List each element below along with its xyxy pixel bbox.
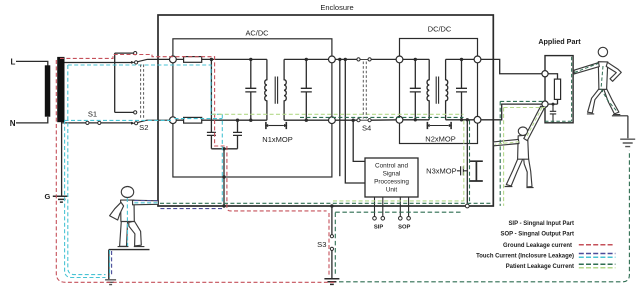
svg-text:N2xMOP: N2xMOP <box>425 134 455 143</box>
svg-text:DC/DC: DC/DC <box>428 25 452 34</box>
svg-text:SIP - Singnal Input Part: SIP - Singnal Input Part <box>508 221 574 227</box>
svg-text:S4: S4 <box>362 124 371 133</box>
svg-text:S1: S1 <box>88 110 97 119</box>
svg-text:N3xMOP: N3xMOP <box>426 167 456 176</box>
svg-text:Ground Leakage current: Ground Leakage current <box>503 243 572 249</box>
svg-text:AC/DC: AC/DC <box>246 29 270 38</box>
svg-text:G: G <box>45 192 51 201</box>
svg-text:N: N <box>10 119 16 128</box>
svg-text:S2: S2 <box>139 123 148 132</box>
svg-text:Applied Part: Applied Part <box>538 37 581 46</box>
svg-text:SIP: SIP <box>374 225 383 231</box>
svg-text:Control and: Control and <box>375 162 408 169</box>
svg-text:L: L <box>11 57 16 66</box>
svg-text:Signal: Signal <box>383 171 401 178</box>
svg-text:Proccessing: Proccessing <box>374 179 409 186</box>
svg-text:Touch Current (Inclosure Leaka: Touch Current (Inclosure Leakage) <box>476 254 574 260</box>
svg-text:Unit: Unit <box>386 187 398 194</box>
svg-text:S3: S3 <box>317 240 326 249</box>
svg-text:Enclosure: Enclosure <box>320 3 353 12</box>
svg-text:N1xMOP: N1xMOP <box>262 135 292 144</box>
svg-text:SOP - Singnal Output Part: SOP - Singnal Output Part <box>501 231 574 237</box>
svg-text:SOP: SOP <box>398 225 410 231</box>
svg-text:Patient Leakage Current: Patient Leakage Current <box>506 264 574 270</box>
